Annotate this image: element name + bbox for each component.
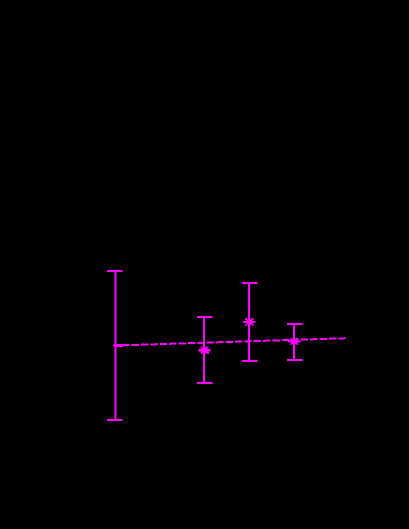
data point P1 marker — [115, 344, 122, 347]
dashed fit line — [113, 338, 346, 345]
data point P3 marker (asterisk) — [243, 318, 255, 326]
data point P4 marker (asterisk) — [288, 338, 300, 346]
error bar E1 — [107, 271, 123, 420]
error bar E4 — [287, 324, 302, 360]
error bar E3 — [242, 283, 258, 361]
error bar E2 — [197, 317, 213, 383]
data point P2 marker (asterisk) — [198, 346, 210, 354]
